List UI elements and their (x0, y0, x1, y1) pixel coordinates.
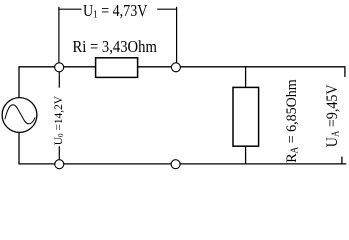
svg-text:U0 =14,2V: U0 =14,2V (52, 95, 65, 145)
svg-text:Ri = 3,43Ohm: Ri = 3,43Ohm (73, 38, 158, 56)
terminal tick bottom right (341, 157, 343, 164)
measurement bracket Ui: left vertical (58, 7, 60, 63)
node top-left (55, 63, 64, 72)
wire bottom: source corner to bottom-left node (18, 163, 55, 165)
measurement bracket Ui: right vertical (176, 7, 178, 63)
wire bottom: bottom-right node to right end (180, 163, 346, 165)
wire: source bottom lead (18, 133, 20, 164)
node bottom-right (171, 160, 180, 169)
node top-right (171, 63, 180, 72)
measurement bracket Ui: top horizontal left segment (58, 8, 81, 10)
svg-text:U1 = 4,73V: U1 = 4,73V (83, 2, 148, 21)
svg-text:RA = 6,85Ohm: RA = 6,85Ohm (284, 79, 301, 163)
wire: source top lead (18, 67, 20, 98)
node bottom-left (55, 160, 64, 169)
measurement line U0: lower tick (58, 146, 60, 159)
AC voltage source G1 circle (2, 98, 37, 133)
wire top: source corner to left node (18, 66, 54, 68)
wire top: resistor Ri to right node (138, 66, 172, 68)
terminal tick top right (344, 67, 346, 77)
wire bottom: bottom-left node to bottom-right node (64, 163, 171, 165)
resistor Ri body (96, 58, 138, 78)
svg-text:UA =9,45V: UA =9,45V (324, 84, 341, 147)
wire top: left node to resistor Ri (64, 66, 96, 68)
wire: resistor RA top lead (245, 67, 247, 88)
resistor RA body (233, 87, 259, 146)
measurement bracket Ui: top horizontal right segment (157, 8, 177, 10)
wire: resistor RA bottom lead (245, 146, 247, 164)
sine wave symbol inside source (5, 105, 35, 124)
measurement line U0: upper tick (58, 72, 60, 88)
wire top: right node to right end (180, 66, 345, 68)
